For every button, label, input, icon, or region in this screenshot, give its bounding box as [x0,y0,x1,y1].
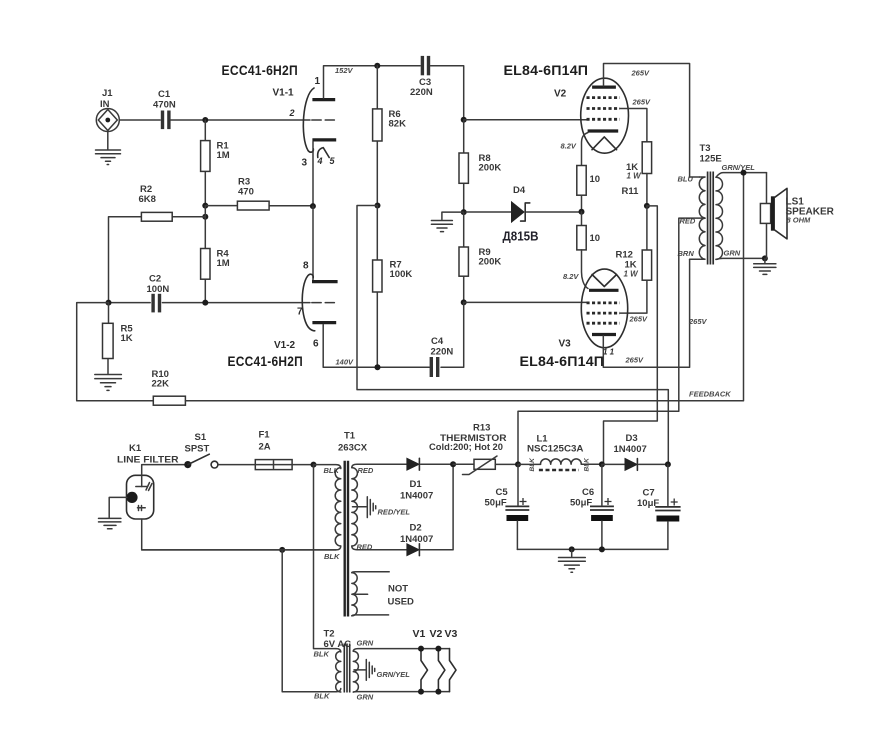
wire feedback left leg [77,303,154,401]
chassis tap RED/YEL [367,497,410,518]
node V2 grid [461,117,467,123]
svg-text:SPST: SPST [185,444,210,455]
svg-text:100K: 100K [390,269,413,280]
svg-text:8.2V: 8.2V [563,272,579,281]
wire J1 to C1 [119,119,160,121]
node L1 out / D3 anode [599,461,605,467]
triode V1-1 [273,76,337,169]
resistor R6 82K [373,66,406,206]
node mains neutral split [279,547,285,553]
ground at R5 [95,375,122,391]
node C2/R4 [202,300,208,306]
node ground tap [569,546,575,552]
svg-text:C7: C7 [643,488,655,499]
wire node stack [204,206,206,217]
svg-text:ECC41-6Н2П: ECC41-6Н2П [228,354,304,370]
wire V1-1 cathode [312,142,314,206]
node cathodes V1 [310,203,316,209]
resistor R4 1M [201,217,230,303]
capacitor C7 10uF [637,464,681,549]
svg-text:Д815В: Д815В [503,229,539,244]
svg-text:V1-2: V1-2 [274,340,296,351]
svg-text:V2: V2 [554,89,567,100]
node R7 bottom 140V rail [375,364,381,370]
svg-text:50μF: 50μF [570,498,592,509]
chassis tap GRN/YEL [366,660,410,681]
svg-text:22K: 22K [152,379,170,390]
winding NOT USED [352,572,414,616]
svg-text:C2: C2 [149,274,161,285]
capacitor C5 50uF [485,464,530,549]
svg-text:100N: 100N [147,284,170,295]
svg-text:J1: J1 [102,88,113,99]
fuse F1 2A [255,430,313,470]
node R1/R3 [202,203,208,209]
node R2/R4 [202,214,208,220]
pentode V3 [559,269,628,356]
wire to C4 [441,302,464,367]
svg-text:V1-1: V1-1 [273,88,295,99]
transformer T1 263CX [142,431,407,617]
svg-text:220N: 220N [431,347,454,358]
resistor R5 1K [103,303,134,374]
node C2/R5/R2 [106,300,112,306]
capacitor C4 220N [430,336,454,377]
capacitor C6 50uF [570,464,614,549]
svg-text:NSC125C3A: NSC125C3A [527,444,584,455]
node rectifier output [450,461,456,467]
transformer T3 125E [518,143,767,464]
capacitor C3 220N [410,56,433,98]
node 10/10/D4 [579,209,585,215]
svg-text:BLK: BLK [584,457,591,472]
wire 10 ohm to V3 cathode [582,250,589,289]
svg-text:1 W: 1 W [624,270,640,279]
speaker LS1 [760,173,834,259]
svg-text:C5: C5 [496,487,509,498]
svg-text:265V: 265V [629,315,649,324]
node feedback tap [741,170,747,176]
svg-text:10: 10 [590,174,601,185]
svg-text:263CX: 263CX [338,443,368,454]
svg-text:NOT: NOT [388,584,408,595]
svg-text:C1: C1 [158,89,171,100]
svg-text:ECC41-6Н2П: ECC41-6Н2П [222,63,299,79]
svg-text:S1: S1 [195,432,207,443]
svg-text:7: 7 [297,307,303,318]
svg-text:265V: 265V [631,69,651,78]
svg-text:1N4007: 1N4007 [400,491,433,502]
resistor R9 200K [459,212,501,302]
svg-text:Cold:200; Hot 20: Cold:200; Hot 20 [429,442,503,452]
svg-text:BLU: BLU [678,175,694,184]
svg-text:D1: D1 [410,479,423,490]
svg-text:K1: K1 [129,443,142,454]
svg-text:265V: 265V [625,356,645,365]
svg-text:D3: D3 [626,433,638,444]
svg-text:BLK: BLK [324,552,340,561]
wire live to T2 primary [314,465,337,649]
svg-text:140V: 140V [336,358,355,367]
svg-text:C4: C4 [431,336,444,347]
svg-text:EL84-6П14П: EL84-6П14П [520,354,605,370]
svg-text:IN: IN [100,99,110,110]
svg-text:5: 5 [330,156,336,166]
wire 265V screen feed [604,206,658,465]
svg-text:FEEDBACK: FEEDBACK [689,390,731,399]
svg-text:R11: R11 [622,186,640,197]
svg-text:10: 10 [590,233,601,244]
transformer T2 6V AC [314,629,450,702]
resistor R7 100K [373,206,413,368]
diode D3 1N4007 [602,433,668,470]
svg-text:1 W: 1 W [627,172,643,181]
resistor R12 1K 1W [616,206,652,313]
node grid V1-1 [202,117,208,123]
node C6 ground [599,546,605,552]
capacitor C1 470N [153,89,176,129]
wire C1 to V1-1 grid [171,119,310,121]
svg-text:1M: 1M [217,258,230,269]
svg-text:220N: 220N [410,87,433,98]
diode D1 1N4007 [400,458,453,501]
svg-text:265V: 265V [688,317,708,326]
svg-text:T1: T1 [344,431,356,442]
svg-text:BLK: BLK [314,692,330,701]
node heater top 2 [435,646,441,652]
svg-text:1N4007: 1N4007 [614,444,647,455]
wire V3 anode to T3 BRN [603,259,689,367]
svg-text:3: 3 [302,158,308,169]
node filter input [515,461,521,467]
node V3 grid [461,299,467,305]
wire grid to V2 [464,119,587,121]
pentode V2 [554,78,628,153]
svg-text:GRN/YEL: GRN/YEL [722,163,756,172]
svg-text:USED: USED [388,597,415,608]
wire V1-1 anode to top rail [324,66,421,98]
wire K1 to T1 primary bottom [142,519,336,550]
thermistor R13 [429,423,518,475]
svg-text:6: 6 [313,339,319,350]
resistor R11 1K 1W [622,142,652,206]
heater V2 [438,649,445,692]
svg-text:RED/YEL: RED/YEL [378,508,411,517]
resistor R3 470 [205,177,313,211]
svg-text:D4: D4 [513,185,526,196]
resistor 10 upper [577,166,600,212]
ground at J1 [96,132,121,165]
line filter K1 [117,443,184,519]
node R6/R7 [375,203,381,209]
svg-text:2A: 2A [259,442,271,453]
svg-text:GRN: GRN [357,639,374,648]
svg-text:T3: T3 [700,143,711,154]
wire grid to V3 [464,301,587,303]
wire V1-2 anode to 140V rail [323,325,429,368]
svg-text:152V: 152V [335,66,354,75]
resistor R10 22K [152,369,186,405]
svg-text:1N4007: 1N4007 [400,534,433,545]
wire V2 g2 to R11 [620,109,647,142]
node speaker return [762,255,768,261]
svg-text:6K8: 6K8 [139,194,156,205]
svg-text:D2: D2 [410,523,422,534]
resistor 10 lower [577,212,600,250]
diode D2 1N4007 [400,464,453,555]
svg-text:GRN: GRN [357,693,374,702]
capacitor C2 100N [109,274,311,313]
inductor L1 NSC125C3A [518,434,602,472]
svg-text:BLK: BLK [324,466,340,475]
svg-text:1 1: 1 1 [603,348,615,357]
wire feedback long run to T3 secondary [185,173,743,401]
svg-text:BRN: BRN [678,249,695,258]
wire V1-2 cathode [312,206,314,280]
wire neutral to T2 primary bottom [282,550,336,692]
svg-text:1M: 1M [217,150,230,161]
ground at speaker [754,258,776,274]
svg-text:GRN: GRN [724,249,741,258]
svg-text:RED: RED [358,466,374,475]
svg-text:BLK: BLK [314,650,330,659]
svg-text:200K: 200K [479,163,502,174]
triode V1-2 [274,261,338,351]
resistor R1 1M [201,120,230,206]
zener D4 [466,185,582,244]
svg-text:1K: 1K [121,333,133,344]
svg-text:8.2V: 8.2V [561,142,577,151]
svg-text:8 OHM: 8 OHM [787,216,812,225]
svg-text:F1: F1 [259,430,271,441]
node D3 cathode [665,461,671,467]
svg-text:2: 2 [289,108,295,118]
resistor R8 200K [459,120,501,212]
svg-text:470: 470 [238,187,254,198]
svg-text:10μF: 10μF [637,498,659,509]
wire V2 cathode to 10 ohm [582,133,589,166]
node mid divider [461,209,467,215]
resistor R2 6K8 [109,184,206,303]
switch S1 SPST [184,432,255,468]
svg-text:8: 8 [303,261,309,272]
svg-text:50μF: 50μF [485,498,507,509]
connector J1 [96,88,119,132]
svg-text:200K: 200K [479,257,502,268]
svg-text:1: 1 [315,76,321,87]
heater V1 [421,649,428,692]
node heater bottom 2 [435,689,441,695]
node heater bottom 1 [418,689,424,695]
svg-text:470N: 470N [153,100,176,111]
wire R6/R7 node to D3 cathode [357,206,668,465]
svg-text:BLK: BLK [529,457,536,472]
node R6 top [374,63,380,69]
node heater top 1 [418,646,424,652]
svg-text:125E: 125E [700,154,722,165]
wire C3 to V2 grid [430,66,463,120]
svg-text:82K: 82K [389,119,407,130]
svg-text:V1 V2 V3: V1 V2 V3 [413,628,458,640]
ground at K1 [99,497,127,528]
wire ground bus [517,548,668,550]
node mains live split [311,462,317,468]
svg-text:C6: C6 [582,487,594,498]
svg-text:GRN/YEL: GRN/YEL [377,670,411,679]
wire V2 anode top rail to T3 BLU [604,64,690,178]
svg-text:4: 4 [317,156,323,166]
svg-text:EL84-6П14П: EL84-6П14П [504,63,589,79]
ground PSU [559,549,586,572]
heater V3 [450,649,457,692]
svg-text:T2: T2 [324,629,335,640]
ground stub mid divider [431,212,463,232]
node R11/R12 [644,203,650,209]
svg-text:265V: 265V [632,98,652,107]
svg-text:V3: V3 [559,339,572,350]
